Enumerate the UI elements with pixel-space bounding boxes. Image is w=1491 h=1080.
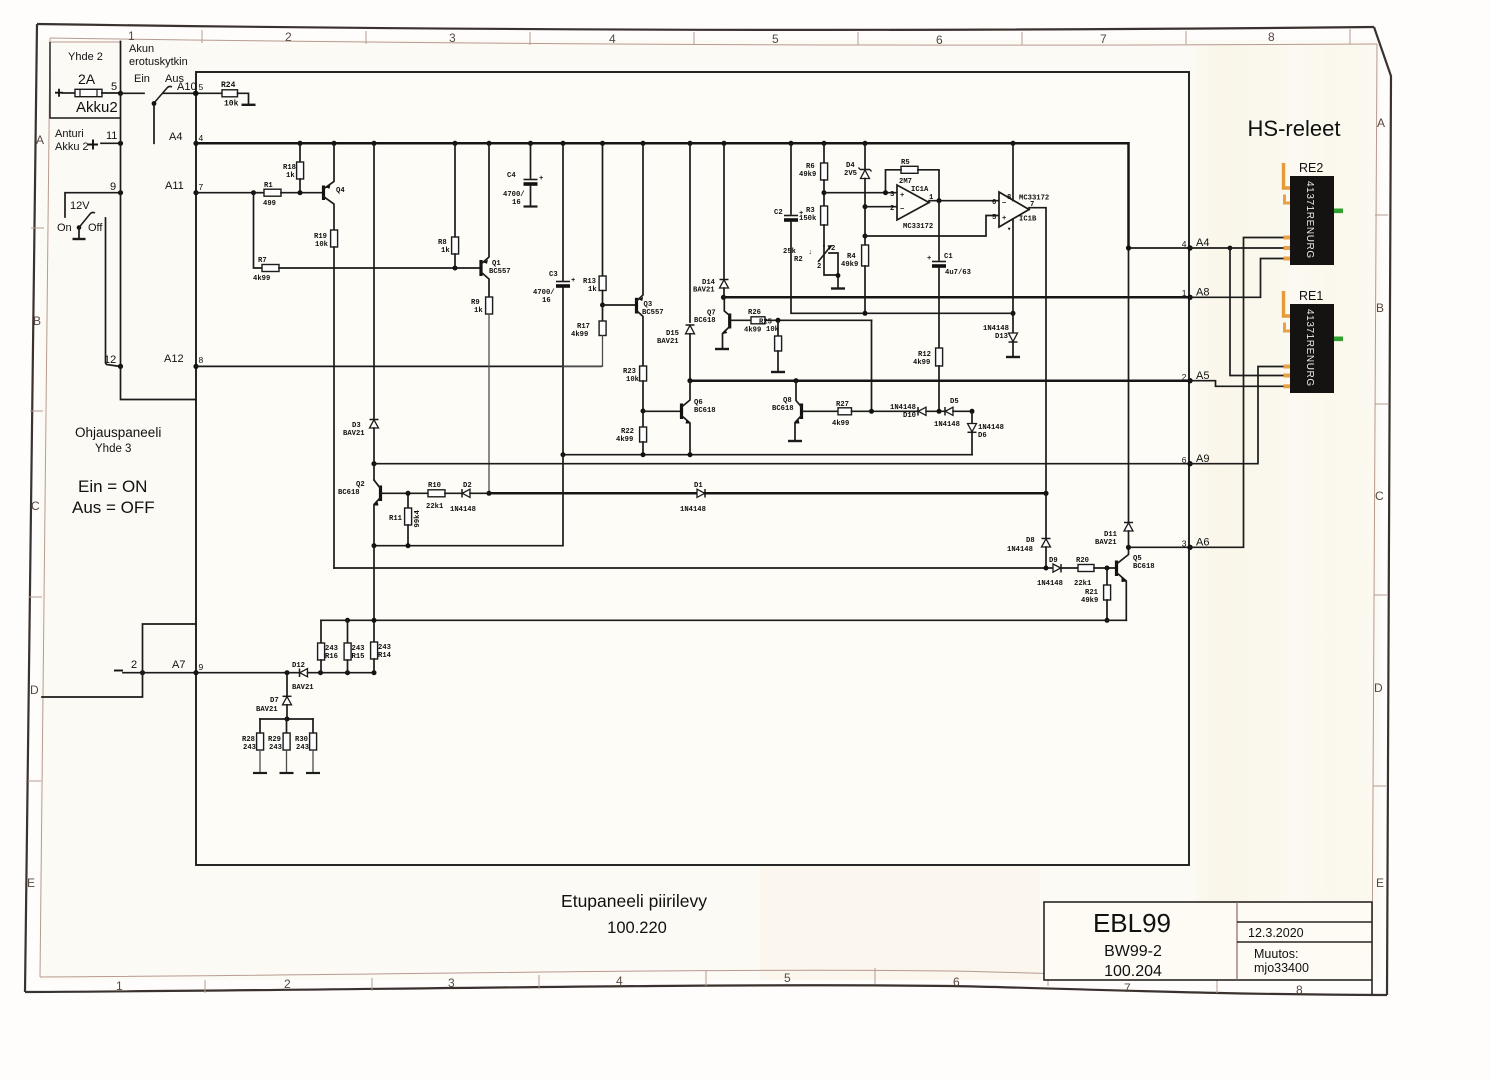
svg-text:49k9: 49k9 <box>1081 597 1098 605</box>
svg-text:R8: R8 <box>438 239 447 247</box>
svg-text:MC33172: MC33172 <box>903 223 933 231</box>
svg-text:C: C <box>1375 489 1384 503</box>
capacitor C1 4u7/63 <box>938 201 940 260</box>
svg-text:D9: D9 <box>1049 557 1058 565</box>
svg-text:16: 16 <box>512 199 521 207</box>
svg-text:9: 9 <box>110 181 116 193</box>
svg-text:R21: R21 <box>1085 589 1099 597</box>
ground R29 <box>280 772 294 774</box>
main schematic box <box>196 72 1189 865</box>
svg-text:4k99: 4k99 <box>571 331 588 339</box>
svg-text:R2: R2 <box>794 256 803 264</box>
svg-text:1k: 1k <box>474 307 483 315</box>
svg-text:1N4148: 1N4148 <box>450 506 476 514</box>
R9 column down to D2 row <box>488 314 490 493</box>
svg-text:Ein: Ein <box>134 73 150 85</box>
svg-text:12V: 12V <box>70 200 90 212</box>
svg-text:1: 1 <box>116 979 123 993</box>
wire A4 to relays <box>1190 247 1230 249</box>
svg-text:R28: R28 <box>242 736 255 744</box>
drawing area tint <box>40 40 1380 980</box>
Q4 collector column down to bottom row <box>333 247 335 568</box>
svg-text:243: 243 <box>296 744 309 752</box>
svg-text:BC618: BC618 <box>694 317 716 325</box>
node IC1B out / D1 row <box>1043 491 1048 496</box>
diode D15 BAV21 <box>689 143 691 322</box>
svg-text:22k1: 22k1 <box>426 503 444 511</box>
node 11 <box>118 141 123 146</box>
wire R26 node down to Q8 base row <box>871 320 873 411</box>
svg-text:HS-releet: HS-releet <box>1248 116 1341 141</box>
node 12 <box>118 364 123 369</box>
svg-text:2: 2 <box>1182 372 1187 382</box>
svg-text:3: 3 <box>1182 539 1187 549</box>
edge junction dots x=195 <box>193 91 198 96</box>
svg-text:243: 243 <box>378 644 391 652</box>
svg-text:2A: 2A <box>78 71 96 87</box>
svg-text:4k99: 4k99 <box>913 359 930 367</box>
svg-text:243: 243 <box>243 744 256 752</box>
svg-text:1k: 1k <box>441 247 450 255</box>
svg-text:2: 2 <box>890 205 894 213</box>
svg-text:100.204: 100.204 <box>1104 963 1162 980</box>
A6 row <box>1129 546 1191 548</box>
svg-text:D10: D10 <box>903 412 916 420</box>
transistor Q1 BC557 <box>479 260 482 276</box>
jog 12 to panel edge <box>121 366 197 399</box>
battery + terminal <box>55 89 63 97</box>
edge node A8 <box>1187 295 1192 300</box>
A11 row <box>196 192 254 194</box>
node Q3 base <box>600 303 605 308</box>
svg-text:D: D <box>1374 681 1383 695</box>
svg-text:7: 7 <box>199 182 204 192</box>
ground 12V switch <box>73 238 86 240</box>
svg-text:41371RENURG: 41371RENURG <box>1304 181 1315 259</box>
battery isolator switch <box>121 92 145 94</box>
resistor R16 243 <box>320 620 322 643</box>
node pin2 IC1A <box>863 204 868 209</box>
wire R24 to ground <box>238 93 249 104</box>
transistor Q2 BC618 <box>373 464 375 480</box>
svg-text:R18: R18 <box>283 164 296 172</box>
svg-text:2M7: 2M7 <box>899 178 912 186</box>
svg-text:R9: R9 <box>471 299 480 307</box>
svg-text:2: 2 <box>131 659 137 671</box>
node A6 left <box>1126 545 1131 550</box>
svg-text:Q8: Q8 <box>783 397 792 405</box>
svg-text:A7: A7 <box>172 659 185 671</box>
node 2 down to left border <box>42 673 143 697</box>
svg-text:R6: R6 <box>806 163 815 171</box>
svg-text:A10: A10 <box>177 81 197 93</box>
wire minus to node 2 <box>123 672 143 674</box>
svg-text:R10: R10 <box>428 482 441 490</box>
wire A9 to RE1 sense <box>1190 367 1288 464</box>
svg-text:3: 3 <box>448 976 455 990</box>
wire pin3 line <box>824 192 897 194</box>
svg-text:4k99: 4k99 <box>616 436 633 444</box>
svg-text:2: 2 <box>817 263 821 271</box>
svg-text:5: 5 <box>111 81 117 93</box>
svg-text:BAV21: BAV21 <box>1095 539 1117 547</box>
diode D11 BAV21 <box>1128 248 1130 522</box>
svg-text:R19: R19 <box>314 233 327 241</box>
svg-text:D1: D1 <box>694 482 703 490</box>
node R9/D2 <box>487 491 492 496</box>
svg-text:R13: R13 <box>583 278 596 286</box>
svg-text:R12: R12 <box>918 351 931 359</box>
svg-text:243: 243 <box>352 645 365 653</box>
svg-text:R27: R27 <box>836 401 849 409</box>
wire A5 to RE1 coil <box>1190 381 1288 387</box>
left ruler ticks <box>31 227 44 229</box>
resistor R26 4k99 <box>732 319 752 321</box>
svg-text:Q3: Q3 <box>644 301 653 309</box>
Q2 emitter rail <box>374 455 563 546</box>
svg-text:D15: D15 <box>666 330 679 338</box>
node A9 left <box>371 461 376 466</box>
node A10 <box>193 91 198 96</box>
inner pale border <box>50 38 1377 45</box>
wire to node 11 <box>101 142 121 144</box>
capacitor C3 4700/16 <box>562 143 564 280</box>
svg-text:4: 4 <box>1182 239 1187 249</box>
transistor Q5 BC618 <box>1115 561 1118 577</box>
svg-text:1N4148: 1N4148 <box>978 424 1004 432</box>
A9 row <box>374 463 1190 465</box>
svg-text:D6: D6 <box>978 432 987 440</box>
svg-text:A11: A11 <box>165 180 184 192</box>
resistor R25 10k <box>777 320 779 336</box>
capacitor C4 4700/16 <box>530 143 532 178</box>
svg-text:R17: R17 <box>577 323 590 331</box>
svg-text:25k: 25k <box>783 248 797 256</box>
svg-text:C: C <box>31 499 40 513</box>
A8 row <box>724 296 1191 299</box>
resistor R19 10k <box>331 230 338 247</box>
svg-text:4: 4 <box>616 974 623 988</box>
svg-text:10k: 10k <box>766 326 780 334</box>
svg-text:6: 6 <box>1182 455 1187 465</box>
svg-text:1N4148: 1N4148 <box>680 506 706 514</box>
node D7 branch <box>285 670 290 675</box>
svg-text:R23: R23 <box>623 368 636 376</box>
fuse F 2A <box>75 89 102 96</box>
svg-text:22k1: 22k1 <box>1074 580 1092 588</box>
node R1/R7 <box>251 190 256 195</box>
svg-text:D8: D8 <box>1026 537 1035 545</box>
A7 row <box>196 672 300 674</box>
resistor R28 243 <box>259 719 261 733</box>
wire RE2 sense to A8 <box>1190 259 1288 298</box>
svg-text:R30: R30 <box>295 736 308 744</box>
svg-text:Q6: Q6 <box>694 399 703 407</box>
svg-text:1N4148: 1N4148 <box>890 404 916 412</box>
svg-text:D12: D12 <box>292 662 305 670</box>
svg-text:RE1: RE1 <box>1299 289 1323 303</box>
ground Q8 emitter <box>788 440 802 442</box>
svg-text:49k9: 49k9 <box>841 261 858 269</box>
svg-text:▾: ▾ <box>1007 226 1011 234</box>
svg-text:Aus = OFF: Aus = OFF <box>72 498 155 517</box>
drive row y568 <box>334 567 1053 569</box>
D3 column from bus <box>373 143 375 419</box>
diode D5 1N4148 <box>944 407 946 416</box>
svg-text:1: 1 <box>128 29 135 43</box>
edge node A9 <box>1187 461 1192 466</box>
zener D4 2V5 <box>864 143 866 169</box>
resistor R17 4k99 <box>602 305 604 321</box>
diode D7 BAV21 <box>286 673 288 696</box>
IC1B V+ column from bus <box>1012 143 1014 200</box>
svg-text:BAV21: BAV21 <box>693 287 715 295</box>
svg-text:2: 2 <box>284 977 291 991</box>
resistor R22 4k99 <box>640 427 647 442</box>
jog node2 up to panel edge <box>143 624 197 673</box>
svg-text:Akku2: Akku2 <box>76 99 118 116</box>
resistor R18 1k <box>299 143 301 162</box>
right ruler ticks <box>1375 214 1388 216</box>
svg-text:R24: R24 <box>221 81 236 90</box>
diode D10 1N4148 <box>917 407 919 416</box>
svg-text:Yhde 3: Yhde 3 <box>95 443 131 455</box>
svg-text:1: 1 <box>1182 288 1187 298</box>
svg-text:R1: R1 <box>264 182 273 190</box>
transistor Q7 BC618 <box>728 314 731 329</box>
svg-text:10k: 10k <box>224 100 239 109</box>
svg-text:5: 5 <box>992 214 996 222</box>
rail above R28-R30 <box>260 718 313 720</box>
transistor Q3 BC557 <box>603 304 635 306</box>
svg-text:EBL99: EBL99 <box>1093 908 1171 938</box>
svg-text:4k99: 4k99 <box>744 327 761 335</box>
wire fuse to node 5 <box>102 92 121 94</box>
diode D13 1N4148 <box>1009 333 1018 342</box>
edge node A6 <box>1187 545 1192 550</box>
svg-text:On: On <box>57 222 72 234</box>
main +12V bus A4 <box>196 143 1129 248</box>
svg-text:R22: R22 <box>621 428 634 436</box>
svg-text:+: + <box>799 210 803 218</box>
svg-text:4: 4 <box>199 133 204 143</box>
Q2 emitter column down to A7 <box>373 546 375 642</box>
svg-text:2: 2 <box>831 245 835 253</box>
svg-text:Q5: Q5 <box>1133 555 1142 563</box>
svg-text:4700/: 4700/ <box>503 191 525 199</box>
svg-text:4u7/63: 4u7/63 <box>945 269 971 277</box>
svg-text:12: 12 <box>104 354 116 366</box>
svg-text:BC618: BC618 <box>694 407 716 415</box>
svg-text:D7: D7 <box>270 697 279 705</box>
svg-text:Etupaneeli piirilevy: Etupaneeli piirilevy <box>561 891 707 911</box>
svg-text:6: 6 <box>936 33 943 47</box>
ground under R2 <box>831 287 845 289</box>
node pin5 feed <box>863 234 868 239</box>
Yhde 2 connector box <box>50 41 120 43</box>
svg-text:1k: 1k <box>286 172 295 180</box>
ground R25 <box>771 371 785 373</box>
svg-text:R5: R5 <box>901 159 910 167</box>
bus junction dots <box>298 141 303 146</box>
node 12V switch wire <box>65 193 121 217</box>
node 9 <box>118 190 123 195</box>
svg-text:5: 5 <box>784 971 791 985</box>
resistor R7 4k99 <box>262 265 279 272</box>
svg-text:R20: R20 <box>1076 557 1089 565</box>
svg-text:R29: R29 <box>268 736 281 744</box>
svg-text:Ohjauspaneeli: Ohjauspaneeli <box>75 425 161 440</box>
svg-text:7: 7 <box>1100 32 1107 46</box>
minus terminal <box>114 670 123 672</box>
svg-text:6: 6 <box>953 975 960 989</box>
svg-text:243: 243 <box>325 645 338 653</box>
diode D3 BAV21 <box>370 419 379 421</box>
resistor R14 243 <box>371 642 378 659</box>
svg-text:1N4148: 1N4148 <box>1037 580 1063 588</box>
svg-text:10k: 10k <box>626 376 640 384</box>
base rail y620 <box>321 619 1126 621</box>
resistor R8 1k <box>454 143 456 237</box>
svg-text:Q1: Q1 <box>492 260 501 268</box>
svg-text:R15: R15 <box>352 653 365 661</box>
svg-text:C2: C2 <box>774 209 783 217</box>
title block row lines <box>1237 921 1372 923</box>
svg-text:A: A <box>36 133 44 147</box>
diode D2 1N4148 <box>461 489 463 498</box>
IC1A output <box>929 201 999 203</box>
svg-text:R7: R7 <box>258 257 267 265</box>
svg-text:BAV21: BAV21 <box>256 706 278 714</box>
node R26/R25 <box>776 318 781 323</box>
wire A4 row <box>1129 247 1191 249</box>
svg-text:A: A <box>1377 116 1385 130</box>
top ruler ticks <box>201 30 203 43</box>
svg-text:BC618: BC618 <box>338 489 360 497</box>
resistor R30 243 <box>312 719 314 733</box>
node 5 <box>118 91 123 96</box>
resistor R29 243 <box>286 719 288 733</box>
svg-text:RE2: RE2 <box>1299 161 1323 175</box>
wire <box>63 92 75 94</box>
capacitor C2 <box>790 143 792 214</box>
svg-text:Akun: Akun <box>129 43 154 55</box>
svg-text:erotuskytkin: erotuskytkin <box>129 56 188 68</box>
svg-text:R14: R14 <box>378 652 392 660</box>
resistor R5 2M7 feedback <box>901 166 918 173</box>
svg-text:BC557: BC557 <box>489 268 511 276</box>
svg-text:6: 6 <box>992 199 996 207</box>
ground R30 <box>306 772 320 774</box>
svg-text:D11: D11 <box>1104 531 1118 539</box>
svg-text:4k99: 4k99 <box>253 275 270 283</box>
diode D6 1N4148 <box>971 411 973 423</box>
transistor Q6 BC618 <box>643 410 682 412</box>
svg-text:99k4: 99k4 <box>414 510 422 528</box>
resistor R9 1k <box>486 297 493 314</box>
svg-text:D5: D5 <box>950 398 959 406</box>
connector column x=120 <box>120 42 122 367</box>
ground Q7 emitter <box>715 348 729 350</box>
svg-text:12.3.2020: 12.3.2020 <box>1248 926 1304 940</box>
svg-text:D3: D3 <box>352 422 361 430</box>
svg-text:2: 2 <box>285 30 292 44</box>
resistor R24 10k <box>196 92 223 94</box>
svg-text:+: + <box>900 192 904 200</box>
svg-text:R3: R3 <box>806 207 815 215</box>
svg-text:BAV21: BAV21 <box>292 684 314 692</box>
svg-text:+: + <box>927 255 931 263</box>
node pin3 IC1A <box>822 190 827 195</box>
resistor R6 49k9 <box>823 143 825 163</box>
svg-text:8: 8 <box>1268 30 1275 44</box>
resistor R21 49k9 <box>1106 568 1108 585</box>
svg-text:5: 5 <box>772 32 779 46</box>
svg-text:8: 8 <box>1007 194 1011 202</box>
node 2 <box>140 670 145 675</box>
svg-text:R16: R16 <box>325 653 338 661</box>
svg-text:5: 5 <box>199 82 204 92</box>
resistor R20 22k1 <box>1078 565 1094 572</box>
Q2 base wire <box>381 492 429 494</box>
svg-text:49k9: 49k9 <box>799 171 816 179</box>
svg-text:C1: C1 <box>944 253 953 261</box>
svg-text:R11: R11 <box>389 515 403 523</box>
svg-text:1k: 1k <box>588 286 597 294</box>
resistor R23 10k <box>640 366 647 381</box>
svg-text:R26: R26 <box>748 309 761 317</box>
svg-text:Anturi: Anturi <box>55 128 84 140</box>
diode D8 1N4148 <box>1045 493 1047 538</box>
resistor R3 150k <box>821 206 828 225</box>
node Q6 base <box>641 409 646 414</box>
resistor R13 1k <box>602 143 604 283</box>
svg-text:−: − <box>900 206 904 214</box>
svg-text:8: 8 <box>199 355 204 365</box>
resistor R27 4k99 <box>803 410 838 412</box>
svg-text:BAV21: BAV21 <box>657 338 679 346</box>
diode D12 BAV21 <box>299 669 301 678</box>
edge node A4 <box>1187 245 1192 250</box>
trimmer R2 25k <box>818 247 830 262</box>
svg-text:41371RENURG: 41371RENURG <box>1304 309 1315 387</box>
svg-text:11: 11 <box>106 130 117 142</box>
A7 row into box <box>143 672 197 674</box>
IC1B V- column to D13 <box>1012 219 1014 333</box>
svg-text:+: + <box>571 277 575 285</box>
svg-text:MC33172: MC33172 <box>1019 195 1049 203</box>
resistor R11 4k99 <box>407 493 409 508</box>
svg-text:9: 9 <box>199 662 204 672</box>
svg-text:4: 4 <box>609 32 616 46</box>
svg-text:8: 8 <box>1296 983 1303 997</box>
svg-text:4700/: 4700/ <box>533 289 555 297</box>
transistor Q8 BC618 <box>800 404 803 420</box>
svg-text:Q4: Q4 <box>336 187 345 195</box>
wire pin5 feed <box>865 216 999 237</box>
svg-text:Yhde 2: Yhde 2 <box>68 51 103 63</box>
resistor R4 49k9 <box>862 245 869 266</box>
svg-text:1N4148: 1N4148 <box>934 421 960 429</box>
wire RE2 coil+ to A6 <box>1190 238 1288 548</box>
svg-text:Akku 2: Akku 2 <box>55 141 89 153</box>
resistor R15 243 <box>347 620 349 643</box>
svg-text:3: 3 <box>890 191 894 199</box>
svg-text:BC618: BC618 <box>1133 563 1155 571</box>
svg-text:3: 3 <box>449 31 456 45</box>
A5 supply row <box>690 379 1190 382</box>
svg-text:B: B <box>1376 301 1384 315</box>
